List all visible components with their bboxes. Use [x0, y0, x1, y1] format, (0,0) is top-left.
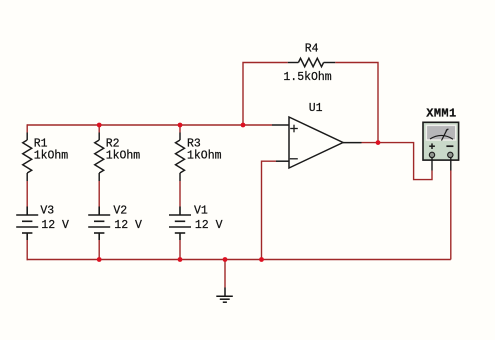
svg-text:12 V: 12 V [195, 219, 223, 232]
svg-text:1kOhm: 1kOhm [106, 149, 141, 162]
junction node ground [223, 257, 228, 262]
svg-text:12 V: 12 V [41, 219, 69, 232]
svg-text:1kOhm: 1kOhm [34, 149, 69, 162]
svg-text:U1: U1 [309, 102, 323, 115]
svg-text:1kOhm: 1kOhm [187, 149, 222, 162]
svg-text:V2: V2 [113, 205, 127, 218]
junction node top bus R2 [97, 123, 102, 128]
multimeter pin plus [431, 158, 433, 171]
wire noninverting input net [243, 124, 272, 126]
resistor R2 [95, 133, 104, 182]
svg-text:XMM1: XMM1 [426, 107, 456, 121]
svg-text:R4: R4 [305, 42, 319, 55]
multimeter plus terminal label [429, 143, 435, 149]
wire branch1 vertical red segments [26, 124, 28, 260]
resistor R1 [23, 133, 32, 182]
multimeter pin minus [450, 158, 452, 171]
ground [216, 288, 233, 303]
svg-text:1.5kOhm: 1.5kOhm [283, 71, 331, 84]
wire bottom bus [27, 259, 451, 261]
svg-text:V3: V3 [40, 205, 54, 218]
wire inverting input net [262, 161, 277, 259]
svg-text:12 V: 12 V [114, 219, 142, 232]
wire ground stem [224, 260, 226, 288]
op-amp minus mark [290, 158, 298, 160]
svg-text:V1: V1 [194, 205, 208, 218]
junction node output [376, 140, 381, 145]
junction node top bus R3 [178, 123, 183, 128]
junction node bottom bus V2 [97, 257, 102, 262]
junction node top bus feedback [241, 123, 246, 128]
multimeter minus terminal [448, 152, 453, 157]
multimeter gauge needle [430, 129, 453, 141]
junction node bottom bus V1 [178, 257, 183, 262]
wire R4 feedback loop [243, 63, 378, 143]
battery V1 [169, 207, 191, 241]
multimeter plus terminal [429, 152, 434, 157]
wire top bus [27, 124, 243, 126]
resistor R4 [288, 58, 335, 66]
multimeter minus terminal label [446, 145, 453, 147]
multimeter XMM1 body [423, 122, 459, 160]
junction node inverting [259, 257, 264, 262]
op-amp plus mark [290, 125, 298, 133]
op-amp U1 [272, 117, 362, 168]
wire branch2 vertical red segments [98, 125, 100, 260]
battery V2 [88, 207, 110, 241]
battery V3 [16, 207, 38, 241]
wire meter minus down [450, 171, 452, 260]
resistor R3 [176, 133, 185, 182]
wire branch3 vertical red segments [179, 125, 181, 260]
wire op-amp output to meter plus [362, 143, 433, 180]
